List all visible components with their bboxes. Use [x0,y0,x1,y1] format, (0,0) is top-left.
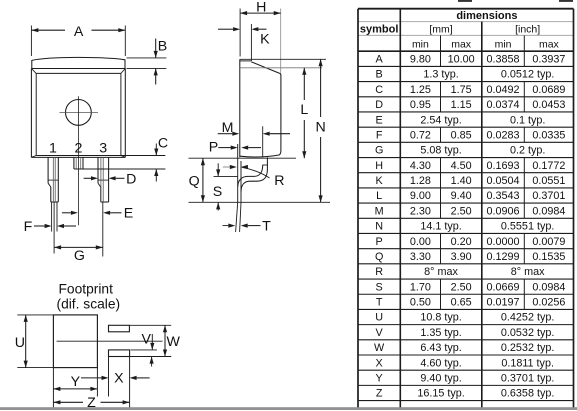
svg-text:F: F [376,129,383,141]
svg-text:0.4252 typ.: 0.4252 typ. [501,312,554,324]
svg-text:(dif. scale): (dif. scale) [56,297,120,312]
svg-text:0.0335: 0.0335 [532,129,565,141]
svg-text:min: min [412,38,429,50]
svg-text:1.3 typ.: 1.3 typ. [423,69,458,81]
svg-text:U: U [15,335,25,351]
svg-text:0.0984: 0.0984 [532,205,565,217]
svg-text:D: D [126,172,136,188]
svg-text:0.1535: 0.1535 [532,251,565,263]
svg-text:0.0984: 0.0984 [532,281,565,293]
svg-text:4.60 typ.: 4.60 typ. [420,357,461,369]
svg-text:Y: Y [71,374,81,390]
svg-text:9.80: 9.80 [410,53,431,65]
svg-text:D: D [375,99,383,111]
svg-text:K: K [376,175,384,187]
svg-text:0.0079: 0.0079 [532,236,565,248]
svg-text:8° max: 8° max [424,266,458,278]
svg-text:Q: Q [375,251,383,263]
svg-text:max: max [451,38,472,50]
svg-text:1: 1 [49,141,57,157]
svg-text:0.0504: 0.0504 [487,175,520,187]
svg-text:0.1 typ.: 0.1 typ. [510,114,545,126]
svg-text:symbol: symbol [360,24,399,36]
svg-text:S: S [376,281,383,293]
svg-text:9.00: 9.00 [410,190,431,202]
svg-text:0.72: 0.72 [410,129,431,141]
svg-text:0.85: 0.85 [451,129,472,141]
svg-text:F: F [24,219,33,235]
svg-text:9.40 typ.: 9.40 typ. [420,372,461,384]
svg-text:Q: Q [189,174,200,190]
svg-text:max: max [539,38,560,50]
svg-text:6.43 typ.: 6.43 typ. [420,342,461,354]
svg-text:0.6358 typ.: 0.6358 typ. [501,388,554,400]
svg-text:0.3543: 0.3543 [487,190,520,202]
svg-text:0.0551: 0.0551 [532,175,565,187]
svg-text:2.30: 2.30 [410,205,431,217]
svg-text:0.0453: 0.0453 [532,99,565,111]
svg-text:0.50: 0.50 [410,297,431,309]
svg-text:0.65: 0.65 [451,297,472,309]
svg-text:0.0197: 0.0197 [487,297,520,309]
svg-text:2.50: 2.50 [451,281,472,293]
svg-text:T: T [376,297,383,309]
svg-text:L: L [300,102,308,118]
svg-text:2.50: 2.50 [451,205,472,217]
svg-text:S: S [213,184,222,200]
svg-text:C: C [375,84,383,96]
svg-text:Footprint: Footprint [58,282,113,297]
svg-text:0.0906: 0.0906 [487,205,520,217]
svg-text:2: 2 [74,141,82,157]
svg-text:1.75: 1.75 [451,84,472,96]
svg-text:3.30: 3.30 [410,251,431,263]
svg-text:A: A [74,24,84,40]
svg-text:L: L [376,190,382,202]
svg-text:0.1693: 0.1693 [487,160,520,172]
svg-text:4.50: 4.50 [451,160,472,172]
svg-text:0.0512 typ.: 0.0512 typ. [501,69,554,81]
svg-text:M: M [375,205,384,217]
svg-text:0.5551 typ.: 0.5551 typ. [501,221,554,233]
svg-text:1.28: 1.28 [410,175,431,187]
svg-text:0.2 typ.: 0.2 typ. [510,145,545,157]
svg-text:[inch]: [inch] [515,24,540,36]
svg-text:U: U [375,312,383,324]
svg-text:Y: Y [376,372,383,384]
svg-text:dimensions: dimensions [456,10,517,22]
svg-text:Z: Z [376,388,383,400]
svg-text:B: B [376,69,383,81]
svg-text:0.1811 typ.: 0.1811 typ. [501,357,554,369]
svg-text:3: 3 [99,141,107,157]
svg-text:14.1 typ.: 14.1 typ. [420,221,461,233]
svg-text:0.0256: 0.0256 [532,297,565,309]
svg-text:1.40: 1.40 [451,175,472,187]
svg-text:0.95: 0.95 [410,99,431,111]
svg-text:H: H [256,0,266,15]
svg-text:1.35 typ.: 1.35 typ. [420,327,461,339]
svg-text:1.15: 1.15 [451,99,472,111]
svg-text:0.1772: 0.1772 [532,160,565,172]
svg-text:0.3701 typ.: 0.3701 typ. [501,372,554,384]
svg-text:W: W [374,342,385,354]
svg-text:N: N [375,221,383,233]
svg-text:N: N [315,120,325,136]
svg-text:2.54 typ.: 2.54 typ. [420,114,461,126]
svg-text:W: W [167,334,181,350]
svg-text:E: E [124,206,133,222]
svg-text:E: E [376,114,383,126]
svg-text:0.3701: 0.3701 [532,190,565,202]
svg-text:P: P [376,236,383,248]
svg-text:10.00: 10.00 [448,53,475,65]
svg-text:0.0000: 0.0000 [487,236,520,248]
svg-text:R: R [274,173,284,189]
svg-text:V: V [376,327,384,339]
svg-text:0.0283: 0.0283 [487,129,520,141]
svg-text:C: C [158,136,168,152]
svg-text:0.20: 0.20 [451,236,472,248]
svg-text:B: B [158,38,167,54]
svg-text:0.0669: 0.0669 [487,281,520,293]
svg-text:0.00: 0.00 [410,236,431,248]
svg-text:min: min [495,38,512,50]
svg-text:0.1299: 0.1299 [487,251,520,263]
svg-text:0.0374: 0.0374 [487,99,520,111]
svg-text:0.0492: 0.0492 [487,84,520,96]
svg-text:G: G [74,248,85,264]
svg-text:H: H [375,160,383,172]
svg-text:16.15 typ.: 16.15 typ. [417,388,464,400]
svg-text:0.2532 typ.: 0.2532 typ. [501,342,554,354]
svg-text:9.40: 9.40 [451,190,472,202]
svg-text:A: A [376,53,384,65]
svg-text:V: V [142,332,152,348]
svg-text:P: P [209,139,218,155]
svg-text:8° max: 8° max [511,266,545,278]
svg-text:1.25: 1.25 [410,84,431,96]
svg-text:0.0532 typ.: 0.0532 typ. [501,327,554,339]
svg-text:X: X [376,357,383,369]
svg-text:R: R [375,266,383,278]
svg-text:4.30: 4.30 [410,160,431,172]
svg-text:5.08 typ.: 5.08 typ. [420,145,461,157]
svg-text:0.3858: 0.3858 [487,53,520,65]
svg-text:10.8 typ.: 10.8 typ. [420,312,461,324]
svg-text:3.90: 3.90 [451,251,472,263]
svg-text:G: G [375,145,383,157]
svg-text:X: X [114,371,124,387]
svg-text:T: T [262,219,271,235]
svg-text:K: K [260,31,270,47]
svg-text:0.0689: 0.0689 [532,84,565,96]
svg-text:0.3937: 0.3937 [532,53,565,65]
svg-text:[mm]: [mm] [429,24,452,36]
svg-text:1.70: 1.70 [410,281,431,293]
